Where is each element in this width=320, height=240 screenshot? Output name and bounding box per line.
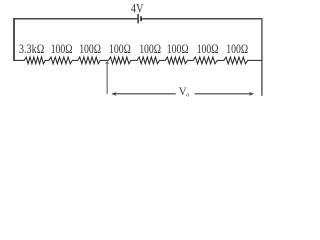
svg-text:100Ω: 100Ω xyxy=(226,42,248,56)
svg-text:100Ω: 100Ω xyxy=(109,42,131,56)
svg-text:3.3kΩ: 3.3kΩ xyxy=(19,42,44,56)
svg-text:100Ω: 100Ω xyxy=(79,42,101,56)
svg-text:4V: 4V xyxy=(131,1,143,15)
svg-text:100Ω: 100Ω xyxy=(167,42,189,56)
svg-text:100Ω: 100Ω xyxy=(51,42,73,56)
svg-text:100Ω: 100Ω xyxy=(197,42,219,56)
svg-text:o: o xyxy=(186,93,189,99)
svg-text:100Ω: 100Ω xyxy=(139,42,161,56)
